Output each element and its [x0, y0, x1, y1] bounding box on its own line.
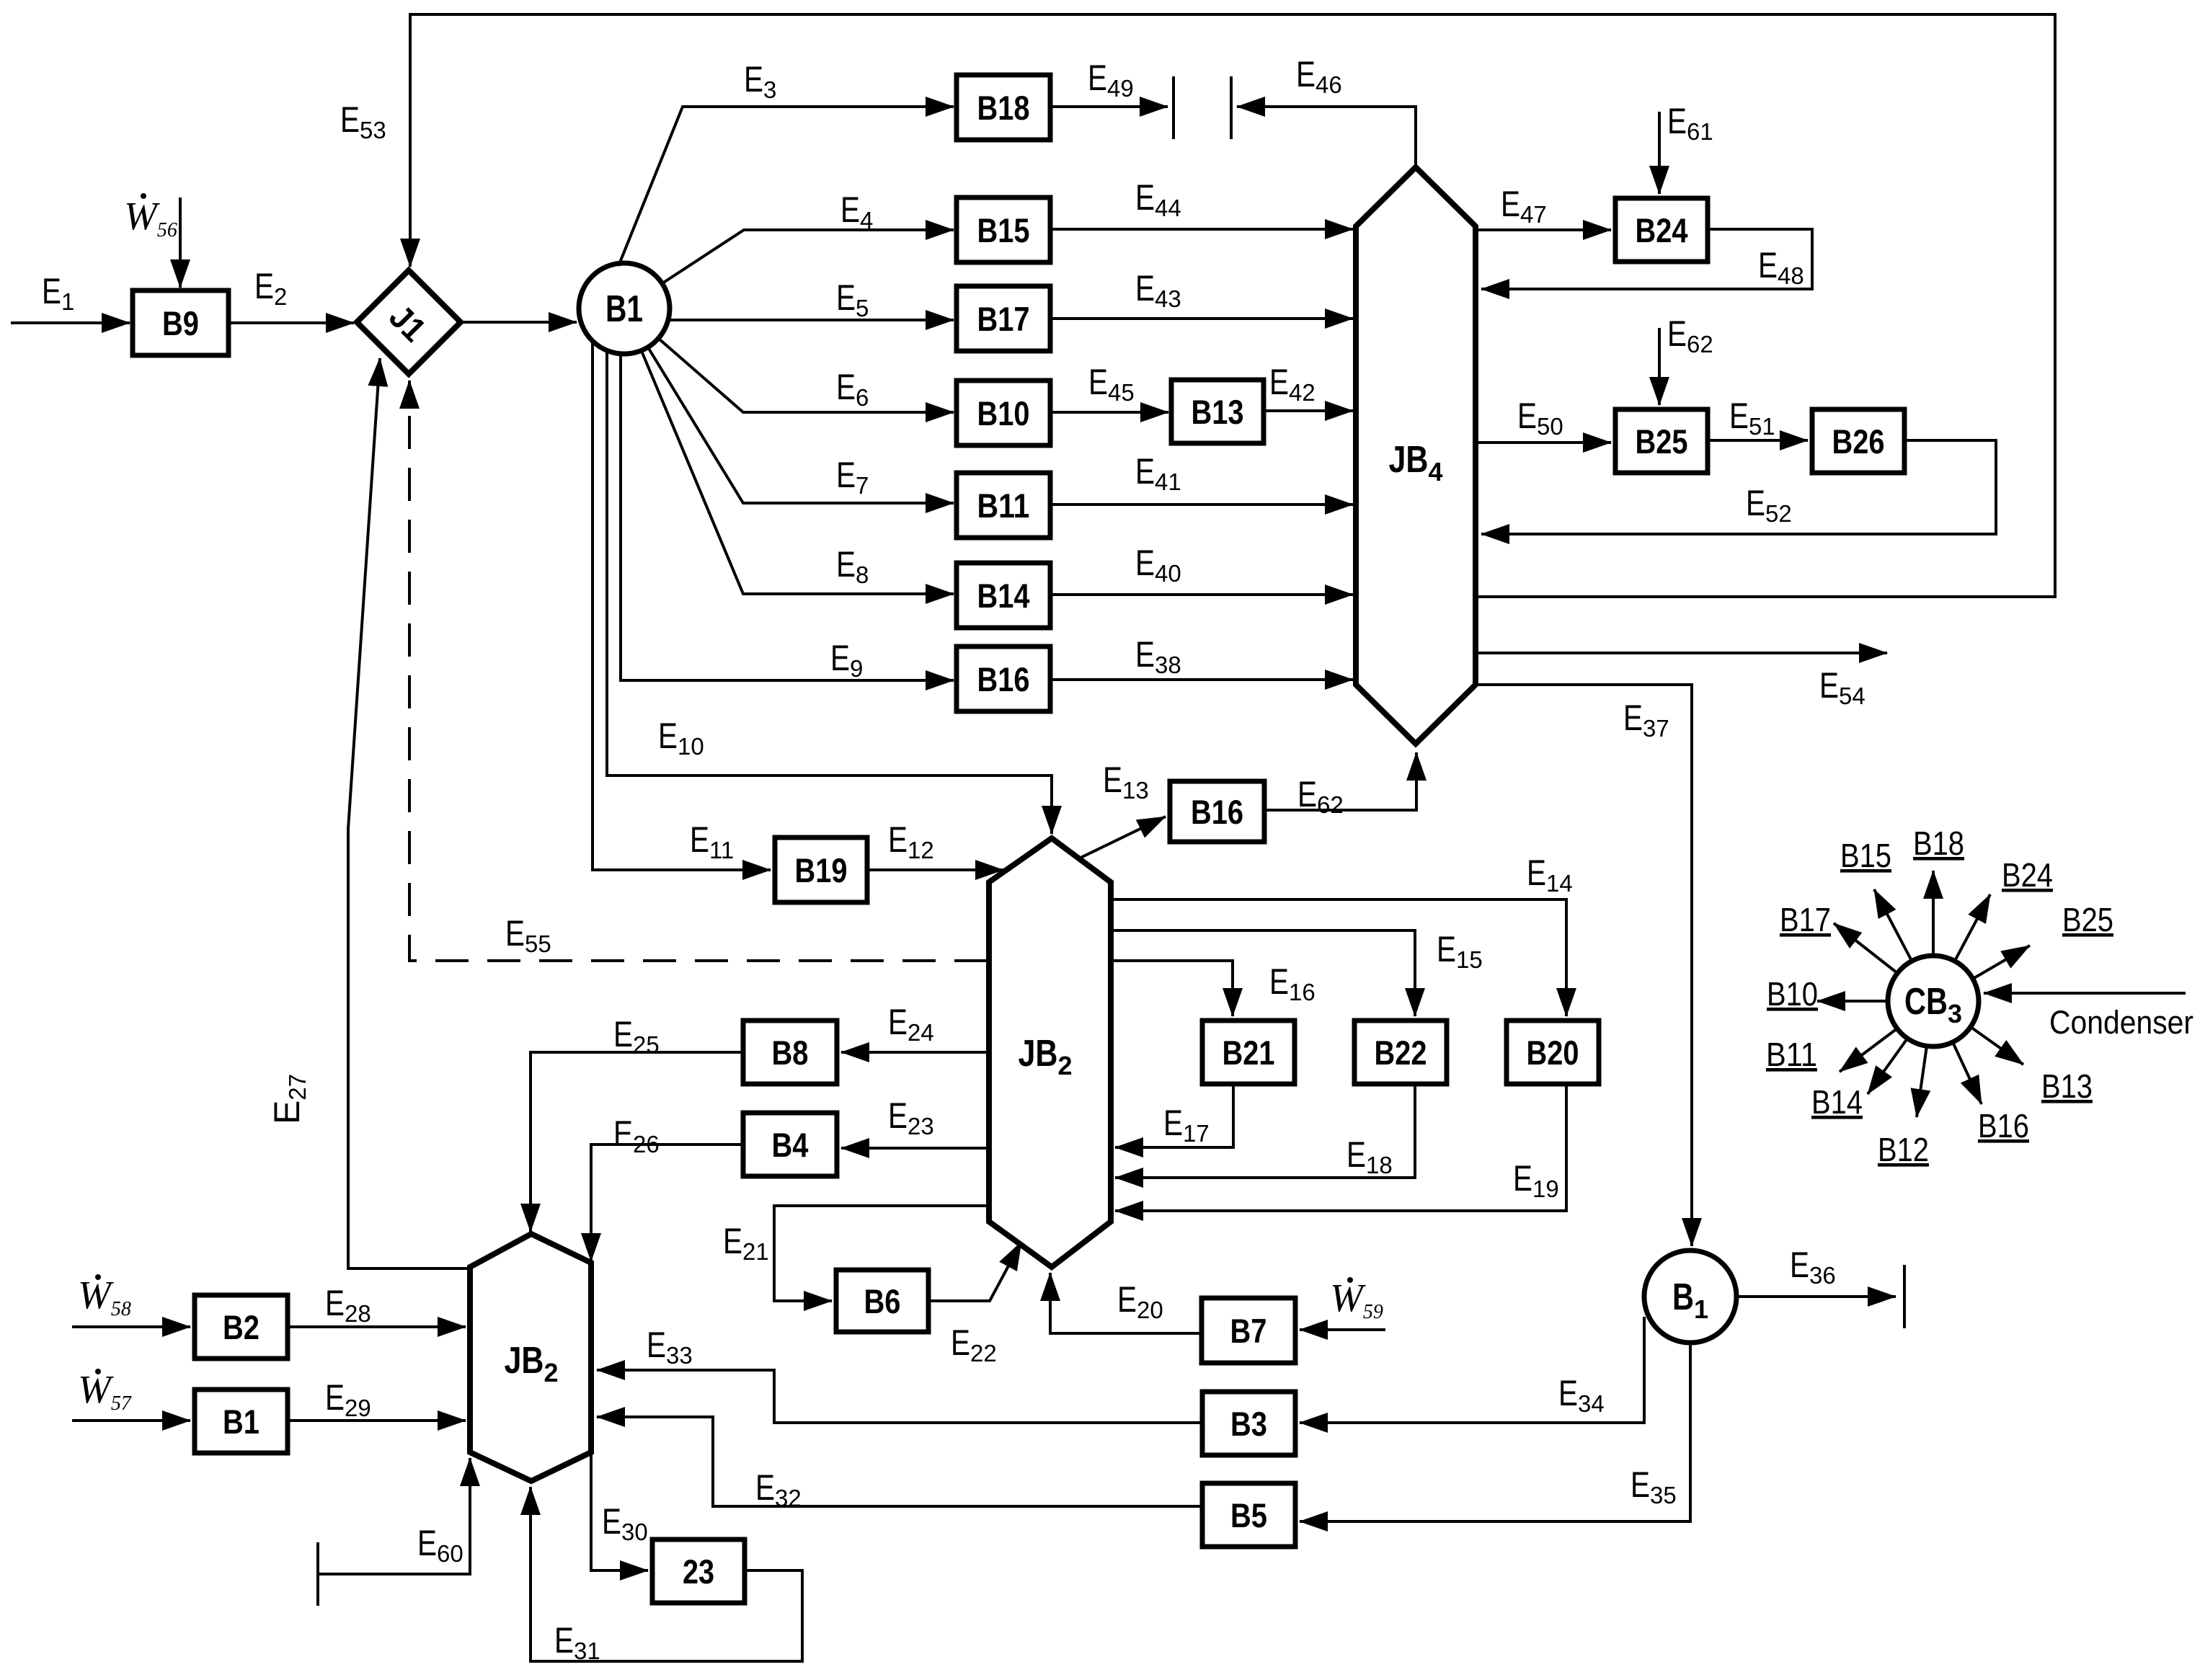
block B13	[1171, 380, 1264, 443]
wire E29	[288, 1419, 466, 1422]
ray B17	[1834, 923, 1897, 973]
wire E27	[348, 358, 470, 1268]
wire W59	[1300, 1328, 1385, 1331]
wire E46	[1237, 107, 1416, 167]
wire E54	[1476, 652, 1887, 654]
svg-text:B24: B24	[2002, 856, 2053, 894]
ray B14	[1868, 1039, 1907, 1094]
block B8	[743, 1021, 837, 1084]
block B4	[743, 1113, 837, 1176]
svg-text:B11: B11	[1766, 1036, 1817, 1073]
wire E25	[531, 1052, 743, 1232]
wire E61	[1658, 112, 1661, 194]
svg-text:B14: B14	[977, 577, 1030, 615]
svg-text:B3: B3	[1230, 1405, 1267, 1443]
block B16	[957, 646, 1050, 711]
wire E37	[1476, 685, 1692, 1246]
block B16b	[1170, 781, 1264, 842]
svg-text:B22: B22	[1375, 1034, 1427, 1072]
wire E21	[774, 1206, 989, 1301]
wire E32	[597, 1417, 1202, 1506]
block B15	[957, 197, 1050, 262]
svg-text:B10: B10	[1767, 975, 1818, 1013]
wire J1-B1	[461, 321, 577, 324]
wire E48	[1481, 229, 1812, 289]
wire E55	[409, 381, 988, 961]
terminal bar E49	[1172, 76, 1175, 139]
block B11	[957, 473, 1050, 538]
svg-text:B11: B11	[977, 486, 1030, 525]
svg-text:B1: B1	[605, 288, 643, 330]
wire E50	[1476, 441, 1611, 444]
svg-text:B5: B5	[1230, 1496, 1267, 1534]
ray B11	[1840, 1028, 1897, 1072]
wire E40	[1050, 593, 1353, 596]
junction J1	[357, 270, 461, 374]
wire E33	[597, 1370, 1202, 1423]
wire E47	[1476, 228, 1611, 231]
svg-text:B18: B18	[1913, 825, 1964, 862]
ray B16	[1953, 1042, 1982, 1104]
wire E11	[593, 341, 771, 870]
wire E31	[531, 1487, 802, 1661]
svg-text:B25: B25	[1636, 422, 1688, 461]
wire E26	[591, 1145, 743, 1261]
block B20	[1507, 1021, 1599, 1084]
block B22	[1354, 1021, 1447, 1084]
wire Condenser	[1984, 992, 2186, 995]
svg-text:B20: B20	[1527, 1034, 1579, 1072]
wire W57	[72, 1419, 190, 1422]
svg-text:B18: B18	[977, 89, 1030, 127]
wire W56	[179, 197, 182, 288]
svg-text:B21: B21	[1223, 1034, 1275, 1072]
wire E16	[1111, 961, 1233, 1016]
wire E60	[318, 1458, 470, 1574]
block B25	[1615, 409, 1708, 473]
block B19	[775, 837, 867, 902]
svg-text:B17: B17	[977, 300, 1030, 338]
wire E38	[1050, 678, 1353, 681]
wire E10	[607, 350, 1052, 834]
svg-text:B10: B10	[977, 394, 1030, 432]
splitter circle B1 (top)	[579, 263, 670, 354]
block B24	[1615, 198, 1708, 262]
block B10	[957, 381, 1050, 445]
ray B24	[1955, 894, 1990, 961]
block B3	[1202, 1392, 1295, 1455]
wire E62b	[1264, 752, 1416, 810]
svg-text:B13: B13	[2041, 1067, 2093, 1105]
block B6	[836, 1270, 928, 1332]
wire E36	[1736, 1295, 1896, 1298]
terminal bar E36	[1903, 1265, 1906, 1328]
wire E24	[841, 1051, 989, 1054]
ray B13	[1971, 1027, 2023, 1065]
wire E9	[621, 354, 954, 680]
ray B25	[1973, 946, 2030, 979]
block B26	[1812, 409, 1904, 473]
wire E2	[229, 321, 354, 324]
block B18	[957, 75, 1050, 140]
wire E14	[1111, 899, 1566, 1016]
terminal bar E60	[316, 1542, 319, 1606]
block B17	[957, 286, 1050, 351]
svg-text:B15: B15	[1840, 837, 1891, 874]
svg-text:B7: B7	[1230, 1312, 1267, 1350]
ray B18	[1932, 871, 1935, 956]
svg-text:B26: B26	[1832, 422, 1885, 461]
block B1b	[195, 1390, 288, 1453]
mixer circle B1 (bottom)	[1644, 1250, 1736, 1343]
wire E7	[648, 347, 954, 503]
block B9	[133, 290, 229, 355]
wire E49	[1050, 105, 1168, 108]
svg-text:B17: B17	[1780, 901, 1831, 938]
terminal bar E46	[1230, 76, 1233, 139]
wire E8	[642, 351, 954, 594]
wire E41	[1050, 503, 1353, 506]
wire E30	[591, 1452, 648, 1570]
block B5	[1202, 1483, 1295, 1547]
wire E17	[1115, 1084, 1233, 1147]
wire E15	[1111, 930, 1415, 1016]
svg-text:B14: B14	[1811, 1083, 1863, 1121]
wire E12	[867, 868, 1003, 871]
wire E5	[668, 319, 954, 321]
svg-text:B2: B2	[223, 1308, 259, 1346]
svg-text:B12: B12	[1878, 1131, 1929, 1168]
svg-text:B15: B15	[977, 211, 1030, 249]
svg-text:B9: B9	[162, 304, 199, 342]
wire E20	[1050, 1273, 1202, 1333]
condenser circle CB3	[1888, 956, 1979, 1046]
svg-text:B25: B25	[2062, 901, 2113, 938]
wire E35	[1300, 1343, 1690, 1521]
wire E42	[1264, 409, 1353, 412]
junction box JB4	[1356, 167, 1476, 744]
wire E4	[662, 230, 954, 283]
ray B15	[1874, 889, 1912, 961]
svg-text:B24: B24	[1636, 211, 1688, 249]
wire E19	[1115, 1084, 1566, 1211]
wire E53 loop	[410, 14, 2055, 597]
wire E22	[928, 1242, 1021, 1301]
block B2	[195, 1295, 288, 1359]
wire E23	[841, 1147, 989, 1150]
svg-text:23: 23	[683, 1552, 714, 1591]
block B7	[1202, 1298, 1295, 1363]
junction box JB2 (middle)	[989, 838, 1111, 1267]
wire E44	[1050, 228, 1353, 231]
wire E62a	[1658, 328, 1661, 405]
wire E18	[1115, 1084, 1415, 1178]
wire E28	[288, 1325, 466, 1328]
svg-text:B19: B19	[795, 851, 848, 889]
block B23	[652, 1539, 745, 1603]
ray B10	[1817, 1000, 1888, 1003]
wire E1	[11, 321, 130, 324]
svg-text:B16: B16	[977, 660, 1030, 698]
wire W58	[72, 1325, 190, 1328]
svg-text:B8: B8	[772, 1034, 809, 1072]
svg-text:B16: B16	[1978, 1107, 2029, 1145]
wire E52	[1481, 440, 1996, 534]
svg-text:B4: B4	[772, 1126, 809, 1164]
svg-text:B1: B1	[223, 1403, 259, 1441]
block B21	[1202, 1021, 1295, 1084]
wire E34	[1300, 1317, 1644, 1423]
wire E51	[1708, 439, 1808, 442]
wire E3	[618, 107, 954, 266]
svg-text:B6: B6	[864, 1282, 901, 1320]
wire E6	[659, 339, 954, 412]
wire E13	[1079, 817, 1166, 858]
ray B12	[1917, 1046, 1927, 1117]
svg-text:B16: B16	[1191, 793, 1243, 831]
wire E43	[1050, 317, 1353, 320]
wire E45	[1050, 411, 1168, 414]
svg-text:B13: B13	[1192, 393, 1244, 431]
svg-text:Condenser: Condenser	[2049, 1004, 2193, 1041]
junction box JB2 (bottom)	[470, 1234, 591, 1481]
block B14	[957, 563, 1050, 628]
